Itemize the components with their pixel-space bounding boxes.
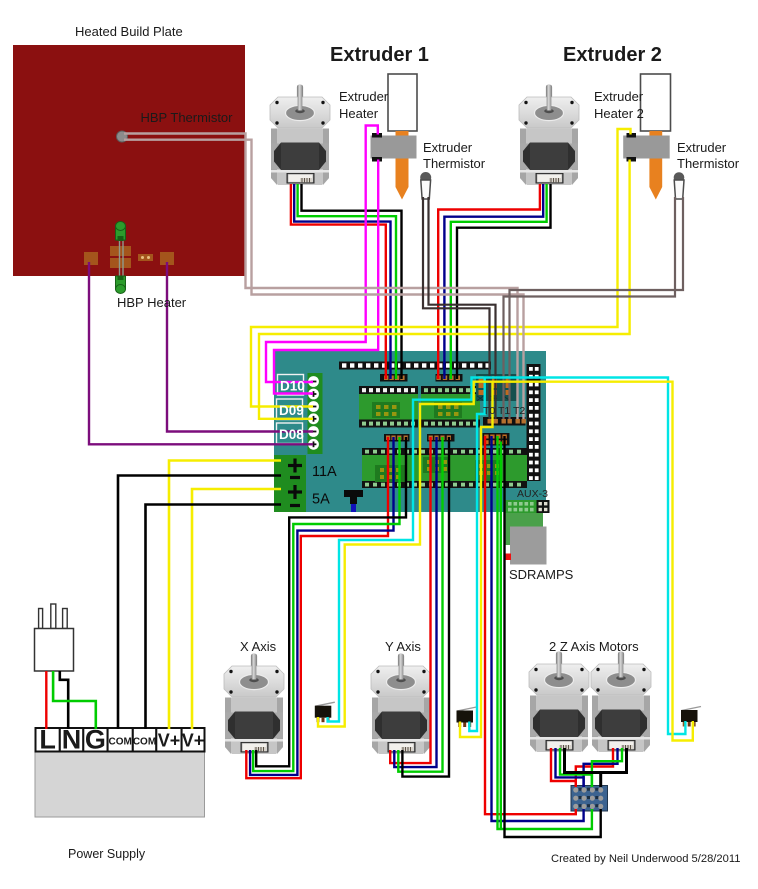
svg-text:COM: COM (133, 737, 156, 748)
svg-text:D08: D08 (279, 427, 304, 442)
svg-text:V+: V+ (182, 731, 205, 751)
svg-text:Thermistor: Thermistor (677, 156, 740, 171)
svg-text:V+: V+ (158, 731, 181, 751)
svg-text:2 Z Axis Motors: 2 Z Axis Motors (549, 639, 639, 654)
svg-text:L: L (39, 725, 56, 755)
svg-text:AUX-3: AUX-3 (517, 488, 548, 500)
svg-text:Created by Neil Underwood 5/28: Created by Neil Underwood 5/28/2011 (551, 853, 740, 865)
svg-text:Extruder: Extruder (423, 140, 473, 155)
svg-text:T0 T1 T2: T0 T1 T2 (483, 405, 525, 417)
svg-text:Extruder: Extruder (339, 89, 389, 104)
svg-text:SDRAMPS: SDRAMPS (509, 567, 574, 582)
svg-text:Thermistor: Thermistor (423, 156, 486, 171)
svg-text:5A: 5A (312, 492, 330, 508)
svg-text:D10: D10 (280, 379, 305, 394)
svg-text:Heater: Heater (339, 106, 379, 121)
svg-text:11A: 11A (312, 464, 337, 480)
svg-text:HBP Heater: HBP Heater (117, 295, 187, 310)
svg-text:Y Axis: Y Axis (385, 639, 421, 654)
svg-text:G: G (85, 725, 106, 755)
svg-text:Extruder 1: Extruder 1 (330, 44, 429, 66)
svg-text:Power Supply: Power Supply (68, 847, 146, 861)
svg-text:X Axis: X Axis (240, 639, 277, 654)
svg-text:Extruder: Extruder (594, 89, 644, 104)
svg-text:Extruder: Extruder (677, 140, 727, 155)
svg-text:D09: D09 (279, 403, 304, 418)
svg-text:Heater 2: Heater 2 (594, 106, 644, 121)
svg-text:COM: COM (109, 737, 132, 748)
svg-text:N: N (62, 725, 82, 755)
svg-text:Heated Build Plate: Heated Build Plate (75, 24, 183, 39)
svg-text:Extruder 2: Extruder 2 (563, 44, 662, 66)
svg-text:HBP Thermistor: HBP Thermistor (141, 110, 234, 125)
